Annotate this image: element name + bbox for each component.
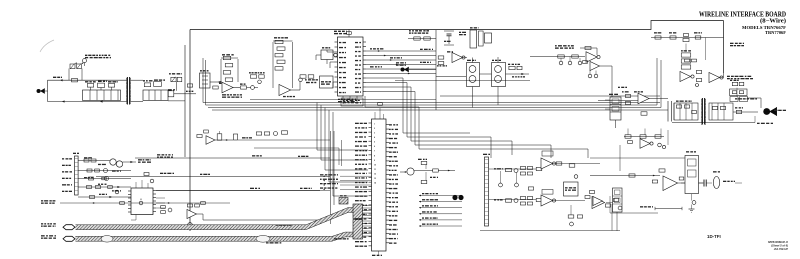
wire T201 secondary bottom [131,100,185,103]
wire input line to transformer [82,79,127,81]
component C240 pair [730,80,744,92]
op-amp U206 [680,72,694,82]
row C wire [78,177,131,181]
svg-text:(Sheet 5 of 6): (Sheet 5 of 6) [771,244,788,248]
wire filter row [436,76,466,78]
wire relay feed [590,157,685,159]
wire frame top border [190,21,724,30]
svg-text:8: 8 [374,155,375,157]
wire Q220-Q221 [480,73,492,75]
wire U302 out [215,139,233,141]
op-amp U207 [709,73,723,83]
terminal strip TB101 [73,153,79,195]
tune boxes [508,64,522,70]
IC U300 [128,188,156,215]
resistor R243 [694,32,702,39]
wire audio path [590,174,660,177]
net rows bottom-left [419,193,462,227]
row D wire [78,186,131,189]
block coupler [320,76,334,88]
amp U208 [634,91,649,104]
capacitor C220 [444,31,454,44]
line network 2 [143,90,168,100]
row A labels [138,159,151,163]
footnote line 2 [771,244,788,248]
ground sym right [689,209,695,212]
wire U303 out [553,164,601,179]
svg-text:13: 13 [374,178,376,180]
wire U306 verticals [628,129,668,146]
wire left rail [184,45,186,157]
trimmer R201 [70,62,83,68]
wire long row 2 [96,174,330,177]
wire thin audio row [60,201,230,205]
ribbon 2 splice left [101,236,113,243]
row speck extras [84,157,121,191]
feedback ladder 1 [221,54,238,82]
op-amp U203A [447,51,465,62]
wire frame right vertical [723,21,725,74]
capacitor C310 [233,134,237,140]
stack R244 [681,50,691,69]
relay K302 [681,151,703,193]
top cluster resistors [624,135,664,138]
svg-text:1D-TFI: 1D-TFI [707,234,721,239]
wire U300 top stubs [136,173,154,189]
resistor R311 [217,131,222,140]
wire stair left-down [317,103,368,197]
net label rows [320,174,372,190]
wire net to amp [174,91,196,94]
capacitor C231 [588,71,598,78]
sheet id 1D-TFI [707,234,721,239]
network box right [730,89,748,96]
wire U207 out [720,73,724,78]
wire frame left vertical [189,30,191,232]
resistor R207 [240,83,247,89]
label audio ret [41,200,55,204]
resistor R230 row [530,55,585,58]
svg-text:11: 11 [374,169,376,171]
svg-text:9: 9 [374,160,375,162]
hatched box P2 [339,195,348,204]
op-amp U301 [187,204,199,219]
resistor network U203A [437,56,447,67]
inductor block L300 [613,188,623,212]
wire net4 to line1 [733,107,758,114]
row flags [157,154,174,174]
resistor R250 [641,112,647,115]
labels above net4 [735,98,757,99]
label a3 blk [298,156,308,157]
terminal strip TB301 [483,154,490,226]
wire staircase down [365,78,419,149]
wire top right rail [651,37,724,39]
resistor R241 [669,32,676,39]
wire U300 right long [156,188,320,191]
transformer T301 [701,98,705,125]
svg-text:14: 14 [374,182,376,185]
capacitor C221 [444,41,454,45]
dc coupler boxes [299,75,318,82]
transformer T201 [126,77,130,105]
svg-text:6: 6 [374,146,375,148]
capacitor C320 [699,180,713,187]
op-amp U204 [586,52,600,63]
wire U202 left links [327,50,335,88]
wire L300 down [606,203,617,232]
resistor R240 [654,32,661,39]
wire z-network stubs [91,87,112,90]
comparator U305 [585,196,605,209]
svg-text:12: 12 [374,173,376,175]
label line1 [774,110,786,111]
wire tune out [506,73,530,78]
resistor R205 [187,84,192,87]
row B wire [78,169,131,173]
label mic hi [41,223,56,227]
wire bottom input line [48,100,127,102]
resonator Z220 [470,27,483,48]
wire U202 top stub [347,30,352,38]
svg-text:2: 2 [374,128,375,130]
op-amp U308 [590,191,603,206]
label west note [334,238,349,239]
resistor R245 [696,71,702,87]
small boxes U306 [628,141,666,149]
op-amp U304 [541,190,556,207]
wire loop bundle [203,58,668,110]
ribbon 2 label [266,242,281,243]
wire filter long lower [395,80,530,82]
wire mid links [254,140,339,165]
wire U304 out [553,200,586,202]
transistor Q101 [110,159,136,167]
ribbon 1 shielded cable [63,208,353,230]
boxes left of U208 [622,91,631,104]
cluster right of U300 [161,206,172,214]
wire P301 bottom stub [372,251,382,256]
svg-text:4: 4 [374,136,375,139]
wire U205 out [600,66,613,97]
svg-text:TRN7706F: TRN7706F [765,30,786,35]
feedback ladder 2 [273,37,293,88]
hatched plug B [353,204,372,219]
wire U300 outputs [156,198,165,208]
wire P301 top stubs [375,103,384,119]
footnote line 3 [774,247,788,251]
block Z201 [200,70,211,88]
label 1 KHZ LOW PASS FILTER [555,45,574,49]
wire T201 secondary top [131,79,143,81]
svg-text:5: 5 [374,142,375,144]
ribbon 2 splice [256,235,270,242]
wire bus vertical pair [331,131,342,224]
connector P301 right labels [389,124,398,244]
transistor Q300 [188,223,193,230]
second stage parts [568,205,582,226]
wire J1 to net [44,80,48,101]
resistor R203 [168,89,175,97]
wire trimmer drop [176,82,178,91]
row E wire [78,194,131,199]
wire stair verticals [403,133,588,158]
wire bundle extra [250,96,660,100]
resistor R206 [213,86,218,89]
capacitor C201 row [85,81,118,88]
relay block K301 [609,94,621,120]
caps row network3 [676,101,696,114]
crystal Y201 [321,47,337,59]
connector P301 [369,119,390,251]
boxes above U206 [685,59,697,62]
label AMPLIFIER [283,96,295,97]
op-amp U302 [206,136,215,145]
label C222 [459,32,466,36]
footnote line 1 [768,240,789,244]
trimmer R204 [169,73,182,82]
pencil smudge [40,40,54,52]
wire bottom rail [480,204,620,231]
wire U307 out [678,177,686,183]
svg-text:1: 1 [374,123,375,125]
connector P301 left labels [355,123,367,247]
transistor block Q220 [467,58,480,108]
connector LINE1 bowtie [763,107,776,116]
boxes row mid [256,131,287,136]
label 3-POLE LOW PASS FILTER [409,30,429,34]
op-amp U205 [583,61,600,71]
label NO AUDIO [618,87,627,88]
resistor R220 row [408,37,436,40]
wire fan-out bundle [366,48,436,74]
wire bottom mid rail [610,196,658,213]
op-amp U201B amplifier [279,85,291,96]
row E parts [102,177,119,194]
svg-text:68P81096E30-O: 68P81096E30-O [768,240,789,244]
wire U202 bottom stubs [338,96,357,104]
ribbon 2 shielded cable [63,232,353,241]
label tuned-frequency note [85,55,111,59]
wire U201B out [291,82,301,90]
wire to label [238,137,258,140]
wire U201A out [233,87,240,89]
block Z221 [485,33,492,43]
label line out [723,181,742,183]
svg-text:7: 7 [374,151,375,153]
svg-text:3: 3 [374,133,375,135]
ribbon 1 label [276,225,291,226]
line matching network Z1 [83,90,121,100]
label DC COUPLER [306,82,316,83]
label noise note [727,76,753,80]
wire right frame [672,98,761,123]
label mic lo [41,235,56,239]
transistor block Q221 [492,57,506,105]
label PRE COMPENSATE AMPLIFIER [222,94,242,98]
wire U301 out [197,214,321,220]
wire fan labels [420,49,433,63]
label 1-pole lpf [730,43,744,47]
svg-text:U: U [140,199,142,201]
label under line1 [757,123,773,124]
line network 3 [668,101,698,122]
capacitor C205 [247,86,259,90]
bowtie J2 [396,62,436,72]
row A wire [78,159,110,162]
resistor R310 row [197,130,208,138]
wire under U300 [131,215,136,221]
wire right col [619,145,621,171]
wire long row 3 [156,188,330,191]
wire trimmer to line [69,69,82,81]
capacitor C202 row [143,79,165,86]
op-amp U303 [541,151,562,169]
connector J1 bowtie [37,88,45,93]
right stage boxes [605,198,621,210]
box small right [730,92,748,102]
op-amp U306 [640,139,653,149]
wire K301 stubs [605,100,616,128]
capacitor C230 [559,57,582,65]
wire R243 drop [705,38,707,61]
wire long row 1 [135,155,330,158]
line network 4 [709,103,733,120]
label rcv tx [494,168,503,169]
IC U202 compander [335,37,367,96]
svg-text:(8−Wire): (8−Wire) [760,18,786,25]
resistor R242 pair [683,34,689,52]
title: MODELS TRN7667F [742,25,786,30]
amp U307 power [663,176,678,191]
wire top input line [48,77,82,82]
title: TRN7706F [765,30,786,35]
wire amp row [598,99,668,101]
IC U309 box [564,182,579,196]
title: WIRELINE INTERFACE BOARD [699,12,786,25]
labels left of TB101 [62,158,72,192]
wire Y201 link [316,55,327,64]
transistor Q310 circuit [400,159,455,184]
jack dots [452,195,463,200]
transistor Q201 [83,59,87,66]
op-amp U201A pre-compensate [219,82,233,93]
bias boxes row [249,72,265,83]
callout box [341,98,363,106]
upper channel caps [499,171,534,190]
svg-text:10: 10 [374,164,376,166]
svg-text:JULY99-UP: JULY99-UP [774,247,788,251]
cap C321 [692,194,696,209]
label U202 COMPANDER [334,31,347,35]
wire Z201 out [210,81,222,83]
wire U203A out [462,57,467,59]
note dimension [640,206,682,210]
label rcv rx [494,199,503,200]
hatched plug C [353,220,372,240]
lower channel components [489,197,542,206]
jack J11 [713,171,720,188]
resistor R320 [652,169,665,183]
wire filter vertical [435,30,437,110]
wire U204 feedback [580,47,597,56]
upper channel components [489,167,542,176]
